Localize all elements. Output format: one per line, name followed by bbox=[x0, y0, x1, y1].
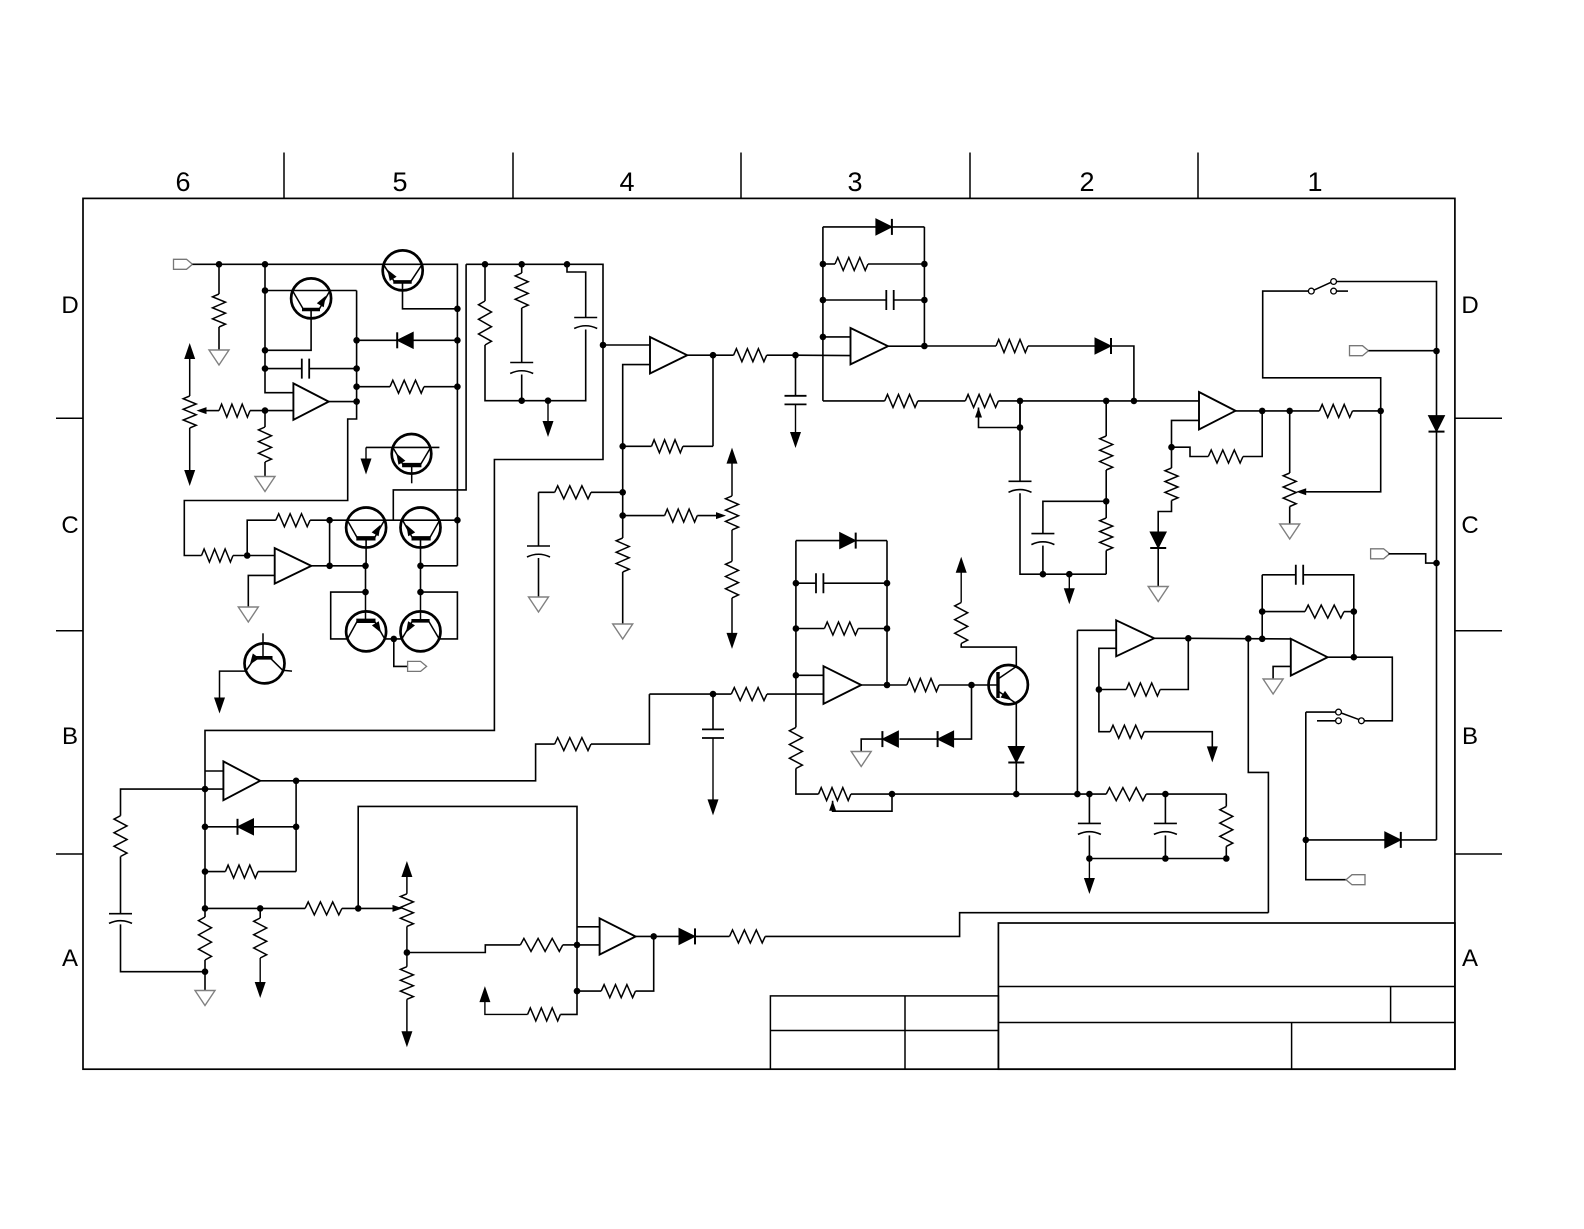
wire P3 wiper bbox=[979, 401, 1021, 428]
wire U3 noninv input bbox=[823, 336, 851, 338]
wire R22 right lead bbox=[310, 519, 330, 521]
svg-text:1: 1 bbox=[1307, 167, 1322, 197]
transistor Q4 internals bbox=[412, 536, 431, 540]
junction bbox=[202, 824, 209, 831]
wire U5 inv input bbox=[767, 693, 824, 695]
wire U7 feedback vertical bbox=[295, 781, 297, 872]
switch S1 throw contact B bbox=[1331, 288, 1337, 294]
wire Q6 right box bbox=[421, 592, 458, 639]
title block row line 2 bbox=[998, 1022, 1455, 1024]
wire U9 feedback vertical bbox=[329, 520, 331, 566]
wire R36 bottom lead bbox=[204, 960, 206, 972]
wire C5 left lead bbox=[823, 299, 886, 301]
resistor R1 bbox=[213, 294, 226, 327]
ground bbox=[209, 350, 229, 365]
potentiometer P6 bbox=[400, 894, 413, 927]
capacitor C13 bbox=[1296, 565, 1303, 585]
junction bbox=[257, 905, 264, 912]
transistor Q5 internals bbox=[356, 619, 375, 623]
wire U5 box top right bbox=[856, 540, 887, 542]
resistor R15 bbox=[885, 394, 918, 407]
junction bbox=[326, 517, 333, 524]
diode D2 bbox=[876, 219, 892, 235]
wire R8 right lead bbox=[683, 445, 713, 447]
junction bbox=[1245, 635, 1252, 642]
diode D12 bbox=[679, 928, 695, 944]
resistor R14 bbox=[996, 340, 1028, 353]
junction bbox=[1096, 686, 1103, 693]
wire to connector J2 bbox=[394, 639, 408, 667]
wire C1 right lead bbox=[309, 368, 356, 370]
border column tick bbox=[740, 153, 742, 199]
resistor R41 bbox=[601, 985, 635, 998]
wire R33 right lead bbox=[258, 871, 296, 873]
transistor Q1 internals bbox=[302, 308, 320, 312]
wire R16 bottom lead bbox=[1105, 470, 1107, 501]
switch S2 pole contact bbox=[1359, 718, 1365, 724]
wire R42 to +V bbox=[485, 1000, 528, 1014]
resistor R2 bbox=[219, 404, 250, 417]
power arrow +V bbox=[401, 861, 412, 877]
wire U2 noninv input bbox=[603, 344, 650, 346]
junction bbox=[355, 905, 362, 912]
junction bbox=[1131, 398, 1138, 405]
wire R39 bottom lead bbox=[406, 999, 408, 1033]
svg-text:5: 5 bbox=[392, 167, 407, 197]
wire D12 to R43 bbox=[695, 935, 730, 937]
wire U6 output bbox=[1154, 637, 1188, 639]
wire U5 box top bbox=[796, 540, 840, 542]
resistor R28 bbox=[1106, 788, 1146, 801]
wire C4 top lead bbox=[538, 492, 540, 546]
power arrow -V bbox=[727, 633, 738, 649]
junction bbox=[326, 563, 333, 570]
junction bbox=[564, 261, 571, 268]
wire C8 bottom lead bbox=[1042, 546, 1044, 575]
wire R39 top lead bbox=[406, 953, 408, 967]
wire U2 output bbox=[687, 354, 713, 356]
wire Q4 emitter stub bbox=[420, 537, 422, 566]
junction bbox=[202, 868, 209, 875]
wire C7 bottom lead bbox=[1020, 493, 1043, 574]
resistor R16 bbox=[1100, 436, 1113, 470]
wire P4 top lead bbox=[1289, 411, 1291, 473]
junction bbox=[244, 552, 251, 559]
wire to Q3 emitter bbox=[330, 565, 366, 567]
junction bbox=[619, 489, 626, 496]
wire P2 top lead bbox=[731, 464, 733, 496]
resistor R29 bbox=[1220, 806, 1233, 846]
junction bbox=[1185, 635, 1192, 642]
wire Q7 left lead bbox=[220, 671, 247, 698]
svg-text:A: A bbox=[1462, 945, 1478, 972]
wire right bus bbox=[1436, 432, 1438, 840]
wire R42 chain bbox=[560, 991, 577, 1014]
wire net IN top rail bbox=[193, 264, 458, 565]
wire R6 top lead bbox=[521, 264, 523, 273]
border column tick bbox=[969, 153, 971, 199]
junction bbox=[1162, 855, 1169, 862]
wire R15 to P3 bbox=[918, 400, 966, 402]
wire U9 inv input bbox=[248, 575, 274, 607]
wire C10 top lead bbox=[712, 694, 714, 729]
junction bbox=[600, 342, 607, 349]
resistor R23 bbox=[824, 622, 858, 635]
junction bbox=[518, 261, 525, 268]
wire Q10 base chord bbox=[366, 446, 439, 448]
wire net N2 drop to quad bbox=[393, 264, 466, 520]
wire R18 right lead bbox=[1353, 410, 1381, 412]
power arrow +V bbox=[184, 343, 195, 359]
op-amp U6 bbox=[1116, 620, 1154, 656]
wire Q10 emitter stub bbox=[411, 465, 413, 483]
wire U6 inv input bbox=[1099, 648, 1116, 689]
wire U4 output bbox=[1236, 410, 1263, 412]
junction bbox=[353, 398, 360, 405]
potentiometer P1 bbox=[183, 396, 196, 428]
junction bbox=[1040, 571, 1047, 578]
junction bbox=[1351, 654, 1358, 661]
power arrow -V bbox=[361, 459, 372, 475]
junction bbox=[417, 589, 424, 596]
junction bbox=[216, 261, 223, 268]
wire S1 throw A bbox=[1337, 282, 1437, 416]
junction bbox=[202, 905, 209, 912]
wire R6 to C2 bbox=[521, 308, 523, 363]
wire Q3 emitter down bbox=[365, 566, 367, 592]
wire bottom rail D3 block bbox=[1043, 573, 1106, 575]
junction bbox=[293, 824, 300, 831]
svg-text:B: B bbox=[1462, 723, 1478, 750]
wire R29 bottom lead bbox=[1225, 846, 1227, 858]
wire clamp to ground bbox=[861, 739, 882, 751]
power arrow -V bbox=[543, 421, 554, 437]
transistor Q1 bbox=[291, 278, 331, 318]
junction bbox=[353, 383, 360, 390]
junction bbox=[921, 343, 928, 350]
capacitor C9 bbox=[816, 573, 823, 593]
capacitor C14 bbox=[109, 914, 132, 924]
transistor Q3 bbox=[346, 508, 386, 548]
op-amp U3 bbox=[851, 328, 889, 364]
wire quad base rail bbox=[330, 519, 458, 521]
wire output rail bbox=[765, 913, 1268, 937]
wire mid rail right bbox=[998, 400, 1199, 402]
wire D4 to ground bbox=[1157, 548, 1159, 587]
resistor R39 bbox=[400, 967, 413, 1000]
junction bbox=[793, 580, 800, 587]
wire C3 branch bbox=[567, 264, 586, 317]
connector J3 bbox=[1350, 346, 1369, 356]
wire Q4 emitter to bus bbox=[421, 565, 458, 567]
potentiometer P6 wiper arrow bbox=[393, 905, 403, 912]
wire U7A output bbox=[636, 935, 679, 937]
wire D3 to mid rail bbox=[1111, 346, 1134, 401]
wire R10 left lead bbox=[623, 515, 665, 517]
wire U5 noninv input bbox=[796, 674, 824, 676]
title block left table row line bbox=[770, 1030, 998, 1032]
potentiometer P1 wiper arrow bbox=[197, 407, 207, 414]
wire R25 left lead bbox=[887, 684, 907, 686]
switch S2 lever bbox=[1341, 713, 1359, 720]
wire R37 to P6 bbox=[342, 907, 397, 909]
resistor R10 bbox=[665, 509, 698, 522]
wire C4 to ground bbox=[538, 558, 540, 597]
wire R32 right lead bbox=[1344, 611, 1354, 613]
wire Q8 collector bbox=[961, 644, 1016, 667]
wire U2 inv input bbox=[623, 365, 650, 516]
power arrow -V bbox=[790, 432, 801, 448]
resistor R28 white mask bbox=[1106, 786, 1146, 802]
wire R41 left lead bbox=[577, 990, 601, 992]
wire to -V arrow bbox=[547, 401, 549, 422]
wire R16 top lead bbox=[1105, 401, 1107, 436]
svg-text:3: 3 bbox=[847, 167, 862, 197]
wire U5 output bbox=[861, 684, 887, 686]
wire C14 bottom lead bbox=[121, 924, 206, 971]
wire C6 bottom lead bbox=[795, 404, 797, 434]
power arrow -V bbox=[255, 982, 266, 998]
junction bbox=[353, 365, 360, 372]
wire R23 left lead bbox=[796, 628, 825, 630]
capacitor C10 bbox=[702, 729, 724, 738]
resistor R11 bbox=[726, 561, 739, 598]
border row tick right bbox=[1455, 417, 1502, 419]
svg-text:4: 4 bbox=[619, 167, 634, 197]
resistor R38 bbox=[254, 918, 267, 958]
wire J3 lead bbox=[1369, 350, 1437, 352]
svg-text:A: A bbox=[62, 945, 78, 972]
resistor R27 bbox=[731, 688, 767, 701]
diode D3 bbox=[1095, 338, 1111, 354]
wire R34 to C10 node bbox=[591, 694, 649, 744]
resistor R6 bbox=[515, 273, 528, 308]
wire R14 to D3 bbox=[1028, 345, 1095, 347]
border frame bbox=[83, 198, 1455, 1069]
wire R30 left lead bbox=[1099, 689, 1126, 691]
wire U2 feedback vertical bbox=[712, 355, 714, 446]
diode D7 bbox=[1008, 747, 1024, 763]
wire U3 box top right bbox=[892, 226, 925, 228]
wire C9 left lead bbox=[796, 582, 816, 584]
border column tick bbox=[512, 153, 514, 199]
switch S2 throw contact A bbox=[1336, 709, 1342, 715]
wire R32 left lead bbox=[1262, 611, 1305, 613]
power arrow -V bbox=[1207, 746, 1218, 762]
ground bbox=[1280, 524, 1300, 539]
junction bbox=[921, 261, 928, 268]
wire P4 wiper bbox=[1303, 411, 1381, 492]
wire R35 to C14 bbox=[120, 857, 122, 914]
junction bbox=[1259, 608, 1266, 615]
junction bbox=[710, 691, 717, 698]
junction bbox=[574, 942, 581, 949]
op-amp U9 bbox=[275, 548, 312, 584]
title block divider v2 bbox=[1291, 1023, 1293, 1070]
wire clamp middle bbox=[899, 738, 937, 740]
wire R9 left lead bbox=[539, 491, 555, 493]
wire R1 to ground bbox=[218, 327, 220, 350]
resistor R43 bbox=[730, 930, 766, 943]
power arrow -V bbox=[401, 1031, 412, 1047]
junction bbox=[404, 949, 411, 956]
junction bbox=[793, 625, 800, 632]
junction bbox=[518, 397, 525, 404]
op-amp U2 bbox=[650, 337, 687, 374]
power arrow +V bbox=[727, 448, 738, 464]
svg-text:C: C bbox=[1461, 512, 1478, 539]
wire D10 to right bus bbox=[1401, 839, 1437, 841]
wire R22 left vertical bbox=[247, 520, 276, 555]
wire R11 bottom lead bbox=[731, 598, 733, 633]
wire Q6 base stub bbox=[420, 592, 422, 621]
transistor Q8 internals bbox=[996, 672, 999, 698]
junction bbox=[1162, 791, 1169, 798]
transistor Q2 internals bbox=[393, 280, 411, 284]
resistor R5 bbox=[479, 301, 492, 345]
border row tick left bbox=[56, 630, 83, 632]
wire S1 throw B stub bbox=[1337, 290, 1349, 292]
junction bbox=[710, 352, 717, 359]
junction bbox=[454, 306, 461, 313]
junction bbox=[619, 512, 626, 519]
wire C8 top lead bbox=[1043, 501, 1106, 533]
wire Q5 left box bbox=[331, 592, 366, 639]
resistor R37 bbox=[305, 902, 342, 915]
junction bbox=[968, 682, 975, 689]
transistor Q7 internals bbox=[253, 656, 273, 660]
junction bbox=[1103, 498, 1110, 505]
op-amp U7 bbox=[223, 761, 260, 800]
capacitor C2 bbox=[510, 363, 533, 374]
resistor R22 bbox=[276, 514, 310, 527]
resistor R30 bbox=[1126, 683, 1160, 696]
junction bbox=[391, 636, 398, 643]
border row tick right bbox=[1455, 853, 1502, 855]
junction bbox=[884, 625, 891, 632]
wire U1 output bus bbox=[329, 291, 357, 402]
wire U7 out rail bbox=[296, 744, 555, 781]
wire R37 row bbox=[205, 907, 305, 909]
wire P1 wiper bbox=[206, 410, 219, 412]
junction bbox=[262, 365, 269, 372]
diode D6 bbox=[840, 533, 856, 549]
wire P4 bottom lead bbox=[1289, 507, 1291, 525]
resistor R36 bbox=[199, 917, 212, 960]
wire R12 to ground bbox=[622, 572, 624, 624]
border column tick bbox=[283, 153, 285, 199]
wire clamp from base bbox=[954, 685, 972, 739]
wire R4 right lead bbox=[424, 386, 457, 388]
wire D7 bottom lead bbox=[1015, 763, 1017, 795]
junction bbox=[1377, 408, 1384, 415]
svg-text:6: 6 bbox=[175, 167, 190, 197]
junction bbox=[353, 337, 360, 344]
ground bbox=[255, 477, 275, 492]
junction bbox=[454, 383, 461, 390]
capacitor C4 bbox=[527, 546, 550, 557]
wire to ground G6 bbox=[204, 972, 206, 991]
transistor Q3 internals bbox=[356, 536, 375, 540]
wire R17 top lead bbox=[1105, 501, 1107, 518]
wire C12 top lead bbox=[1164, 794, 1166, 823]
wire P6 bottom lead bbox=[406, 926, 408, 952]
wire P6 to R40 bbox=[407, 945, 521, 953]
wire output feedback bbox=[1248, 639, 1268, 913]
junction bbox=[1303, 837, 1310, 844]
wire J4 lead bbox=[1389, 554, 1437, 563]
wire to switch S1 bbox=[1263, 291, 1381, 411]
diode D5 bbox=[1429, 416, 1445, 432]
resistor R18 bbox=[1319, 404, 1352, 417]
wire U7A inv input bbox=[577, 944, 600, 946]
transistor Q5 bbox=[346, 611, 386, 651]
title block row line 1 bbox=[998, 986, 1455, 988]
junction bbox=[1086, 791, 1093, 798]
resistor R13 bbox=[835, 258, 868, 271]
wire U5 box right vertical bbox=[886, 541, 888, 685]
junction bbox=[1017, 424, 1024, 431]
wire P5 wiper bbox=[833, 794, 892, 811]
wire R27 left lead bbox=[649, 693, 731, 695]
wire R24 bottom lead bbox=[796, 769, 819, 795]
wire R23 right lead bbox=[858, 628, 887, 630]
junction bbox=[650, 933, 657, 940]
potentiometer P5 wiper arrow bbox=[829, 801, 836, 811]
junction bbox=[1103, 398, 1110, 405]
wire R33 left lead bbox=[205, 871, 225, 873]
junction bbox=[1351, 608, 1358, 615]
wire R20 to D4 bbox=[1158, 501, 1171, 533]
wire R20 top lead bbox=[1171, 447, 1173, 468]
capacitor C7 bbox=[1009, 481, 1032, 492]
ground bbox=[1148, 587, 1168, 602]
wire P1 body top bbox=[189, 359, 191, 396]
potentiometer P4 bbox=[1283, 473, 1296, 507]
power arrow +V bbox=[956, 557, 967, 573]
junction bbox=[293, 778, 300, 785]
transistor Q4 bbox=[401, 508, 441, 548]
switch S2 throw contact B bbox=[1336, 718, 1342, 724]
wire U3 output bbox=[888, 345, 924, 347]
wire R26 top lead bbox=[960, 572, 962, 603]
junction bbox=[262, 261, 269, 268]
junction bbox=[1086, 855, 1093, 862]
junction bbox=[820, 297, 827, 304]
wire U7 output bbox=[260, 780, 296, 782]
wire U4 inv input bbox=[1172, 420, 1200, 447]
op-amp U4 bbox=[1199, 392, 1236, 430]
junction bbox=[884, 682, 891, 689]
junction bbox=[1017, 398, 1024, 405]
junction bbox=[362, 563, 369, 570]
wire R13 right lead bbox=[868, 263, 924, 265]
wire mid rail bbox=[823, 400, 885, 402]
wire bottom rail bbox=[851, 793, 1226, 795]
border column tick bbox=[1197, 153, 1199, 199]
wire Q5-Q6 bottom link bbox=[384, 638, 402, 640]
wire R38 bottom lead bbox=[259, 958, 261, 982]
wire R5 bottom lead bbox=[485, 345, 522, 401]
wire R3 top lead bbox=[264, 411, 266, 427]
wire C6 top lead bbox=[795, 355, 797, 396]
junction bbox=[482, 261, 489, 268]
wire R25 to Q8 base bbox=[939, 684, 998, 686]
title block left table bbox=[770, 996, 998, 1069]
wire R2 to U1 inv input bbox=[250, 410, 293, 412]
transistor Q6 bbox=[401, 611, 441, 651]
wire C10 bottom lead bbox=[712, 738, 714, 801]
